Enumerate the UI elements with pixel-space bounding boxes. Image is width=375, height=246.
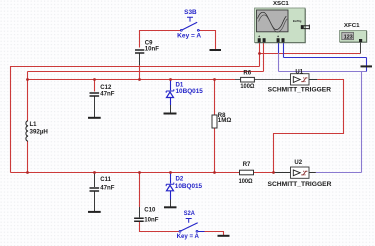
svg-text:SCHMITT_TRIGGER: SCHMITT_TRIGGER [268, 181, 333, 188]
wire: D2 bottom lead [170, 191, 172, 200]
wire: scope A- drop to bus2 [263, 42, 265, 72]
svg-text:R7: R7 [243, 162, 251, 168]
capacitor C11 [90, 177, 115, 192]
svg-text:Key = A: Key = A [177, 33, 202, 40]
wire: bus2 horizontal [28, 71, 264, 73]
svg-text:R6: R6 [243, 71, 251, 77]
svg-text:47nF: 47nF [100, 92, 115, 98]
svg-text:10nF: 10nF [145, 46, 160, 52]
wire: S3B left wire to C9 [140, 31, 181, 48]
frequency counter XFC1 [340, 23, 367, 42]
svg-text:U1: U1 [295, 69, 303, 75]
capacitor C9 [135, 40, 159, 53]
diode D1 (10BQ015) [166, 89, 174, 97]
svg-text:L1: L1 [30, 122, 38, 128]
wire: C9 bottom to bus3 [139, 65, 141, 80]
wire: U1 output feedback loop [274, 80, 344, 173]
wire: L1 bottom lead [27, 141, 29, 173]
wire: C10 black stub [139, 207, 141, 217]
switch S2A [179, 219, 204, 233]
diode D2 (10BQ015) [166, 183, 174, 191]
wire: D1 ground stub [170, 105, 172, 113]
resistor R6 [240, 71, 254, 90]
pin A+ [258, 38, 261, 42]
ground (D1) [164, 113, 177, 115]
ground (D2) [164, 206, 177, 208]
ext trig pin [301, 25, 304, 29]
pin [359, 39, 362, 42]
node: R8 bottom [213, 171, 216, 174]
svg-text:S2A: S2A [184, 210, 196, 217]
wire: D2 ground stub [170, 200, 172, 207]
op-amp U2 (Schmitt trigger) [268, 160, 333, 188]
svg-text:S3B: S3B [184, 9, 197, 16]
ground (scope B- / XFC1 area) [361, 65, 373, 67]
node: C12 top [93, 78, 96, 81]
wire: R6 to U1 input [254, 79, 290, 81]
svg-text:Ext Trig: Ext Trig [293, 19, 302, 23]
inductor L1 [26, 121, 48, 141]
wire: C9 bottom black stub [139, 54, 141, 66]
svg-text:C12: C12 [100, 85, 112, 91]
node: C11 top [93, 171, 96, 174]
wire: bus2 to bus3 vertical at x28 [27, 72, 29, 80]
wire: lower bus [11, 172, 240, 174]
ground (C11) [88, 211, 101, 213]
pin B- [282, 38, 285, 42]
svg-text:C11: C11 [100, 177, 111, 183]
wire: outer tank loop left vertical [10, 66, 12, 173]
wire: XFC1 pin stub [360, 42, 362, 54]
resistor R7 [239, 162, 254, 185]
switch S3B [180, 17, 200, 31]
wire: U2 output stub [309, 172, 316, 174]
wire: R8 top lead [214, 80, 216, 116]
wire: scope B+ drop (purple) [278, 42, 280, 54]
wire: scope B- drop (blue) to ground [284, 42, 367, 72]
svg-text:47nF: 47nF [100, 186, 115, 192]
svg-text:100Ω: 100Ω [239, 179, 253, 185]
svg-text:U2: U2 [294, 160, 302, 166]
node: L1 bottom [26, 171, 29, 174]
capacitor C10 [134, 208, 159, 224]
node: D1 top [169, 78, 172, 81]
node: R8 top [213, 78, 216, 81]
wire: L1 top lead [27, 80, 29, 121]
wire: S3B right wire to ground [200, 31, 216, 50]
wire: red to XFC1 [260, 53, 361, 55]
svg-text:10BQ015: 10BQ015 [176, 88, 204, 95]
pin A- [263, 38, 266, 42]
svg-text:392µH: 392µH [30, 130, 48, 136]
wire: R6 left lead [235, 79, 241, 81]
wire: C10 top lead [139, 173, 141, 208]
wire: D1 top lead [170, 80, 172, 91]
node: C10 top [138, 171, 141, 174]
wire: C10 bottom to S2A [140, 221, 180, 231]
wire: C12 bottom to ground [94, 96, 96, 117]
wire: C12 top lead [94, 80, 96, 92]
ground (S3B) [210, 49, 222, 51]
wire: C11 top lead [94, 173, 96, 188]
resistor R8 [212, 113, 231, 128]
node: bus2/bus3 corner x28 [26, 78, 29, 81]
wire: top bus1 (net to scope A+) [11, 66, 260, 68]
capacitor C12 [90, 85, 115, 98]
wire: R8 bottom lead [214, 128, 216, 173]
wire: purple net B+ to U2 output [279, 72, 367, 173]
svg-text:10BQ015: 10BQ015 [175, 183, 203, 190]
svg-text:Key = A: Key = A [177, 233, 200, 240]
svg-text:SCHMITT_TRIGGER: SCHMITT_TRIGGER [268, 87, 332, 94]
wire: D2 top lead [170, 173, 172, 184]
node: scope A+ / XFC1 tee [258, 52, 261, 55]
svg-text:100Ω: 100Ω [240, 84, 254, 90]
op-amp U1 (Schmitt trigger) [268, 69, 332, 93]
svg-text:XFC1: XFC1 [344, 23, 360, 29]
ground (C12) [88, 117, 101, 119]
node: C9 bottom [138, 78, 141, 81]
svg-text:D2: D2 [176, 175, 184, 182]
node: D2 top [169, 171, 172, 174]
svg-text:1MΩ: 1MΩ [218, 118, 232, 124]
pin B+ [277, 38, 280, 42]
svg-text:10nF: 10nF [144, 217, 159, 223]
svg-text:C10: C10 [144, 208, 156, 214]
wire: S2A right wire to ground [205, 232, 224, 236]
wire: scope A+ drop [259, 42, 261, 67]
oscilloscope XSC1 [255, 1, 310, 43]
wire: C11 bottom to ground [94, 191, 96, 211]
svg-text:XSC1: XSC1 [273, 1, 290, 7]
ground (S2A) [218, 235, 230, 237]
node: U1 out / R7 / U2 in [272, 171, 275, 174]
wire: D1 bottom lead [170, 98, 172, 106]
wire: R7 right lead to junction [254, 172, 274, 174]
svg-text:123: 123 [344, 34, 353, 40]
wire: bus3 horizontal [28, 79, 236, 81]
wire: U2 input [274, 172, 291, 174]
wire: U1 output stub [309, 79, 317, 81]
